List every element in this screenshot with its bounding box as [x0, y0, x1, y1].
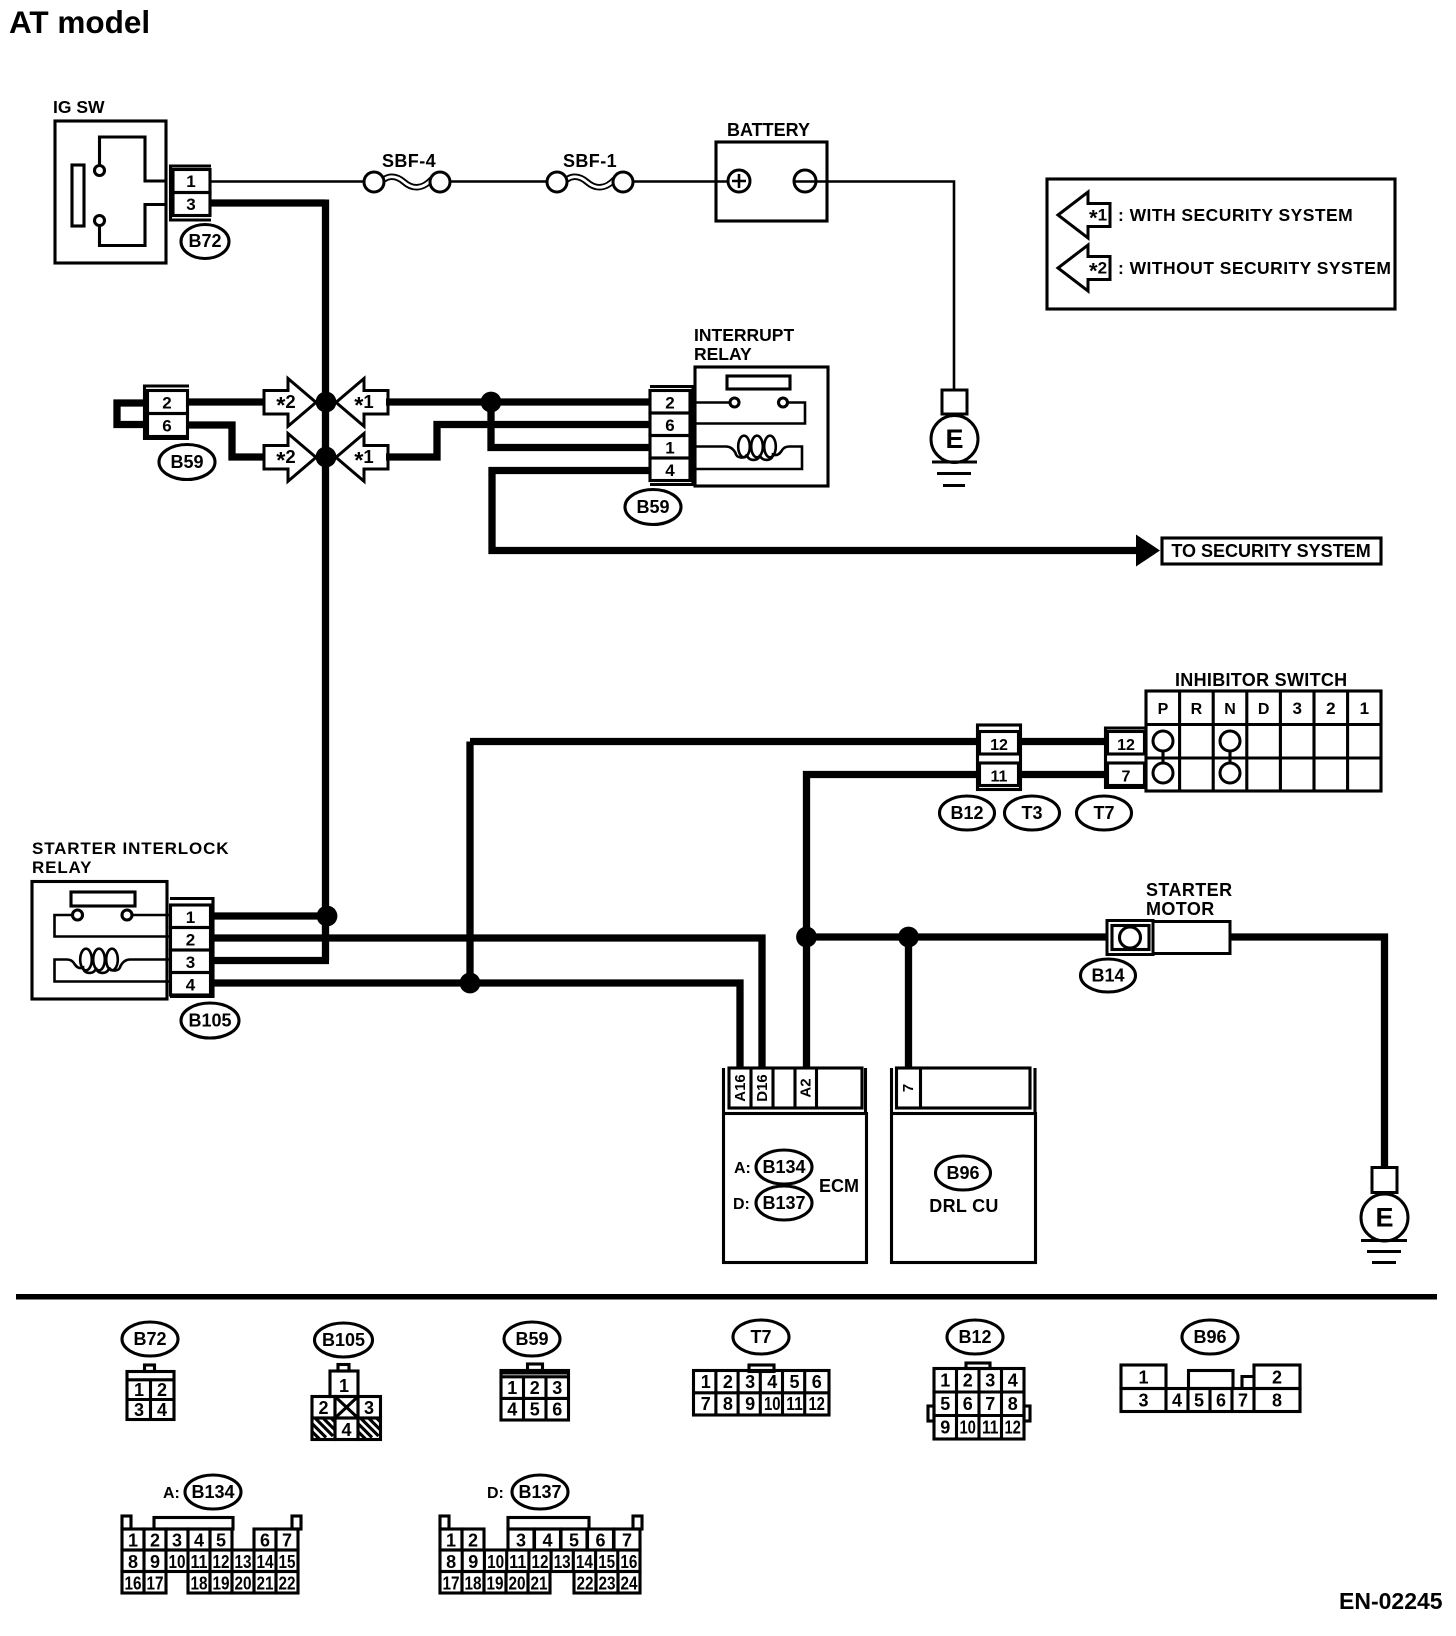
wire starter motor net: [807, 933, 1109, 940]
svg-text:9: 9: [468, 1552, 478, 1572]
svg-text:1: 1: [186, 908, 195, 927]
svg-text:16: 16: [620, 1552, 637, 1572]
legend ellipse B12: [947, 1320, 1003, 1354]
svg-text:B96: B96: [1193, 1327, 1226, 1347]
svg-text:DRL CU: DRL CU: [929, 1196, 998, 1216]
svg-text:7: 7: [282, 1531, 292, 1551]
junction dot pin4 riser: [460, 973, 481, 994]
legend arrow *1: [1058, 192, 1110, 238]
IG SW key bar: [72, 165, 84, 226]
svg-text:23: 23: [599, 1574, 616, 1594]
svg-text:B137: B137: [518, 1482, 561, 1502]
svg-text:B59: B59: [636, 497, 669, 517]
svg-text:4: 4: [1008, 1371, 1018, 1391]
wire B12 pin12 to T7 pin12: [1021, 738, 1108, 745]
svg-text:7: 7: [1238, 1391, 1248, 1411]
svg-text:1: 1: [186, 172, 195, 191]
starter interlock relay coil: [80, 949, 92, 971]
legend ellipse T7: [733, 1320, 789, 1354]
svg-text:4: 4: [157, 1400, 167, 1420]
svg-text:TO SECURITY SYSTEM: TO SECURITY SYSTEM: [1171, 541, 1370, 561]
wire IG pin1 to SBF-4: [209, 180, 364, 183]
arrow *2 row 1: [264, 379, 316, 427]
connector B59 left ellipse: [159, 445, 215, 480]
junction dot pin1 branch: [481, 392, 502, 413]
svg-text:N: N: [1224, 701, 1236, 718]
ground E (top): [931, 390, 978, 486]
svg-text:4: 4: [542, 1531, 552, 1551]
svg-text:4: 4: [767, 1372, 777, 1392]
svg-text:8: 8: [723, 1394, 733, 1414]
svg-text:1: 1: [701, 1372, 711, 1392]
svg-text:3: 3: [364, 1398, 374, 1418]
connector B59 left pin 6: [148, 414, 188, 437]
ellipse T7: [1077, 796, 1132, 830]
interrupt relay coil: [738, 436, 750, 458]
IG SW lower contact wire: [100, 205, 167, 246]
svg-text:4: 4: [341, 1420, 351, 1440]
wire B12 pin11 to T7 pin7: [1021, 771, 1108, 778]
svg-text:E: E: [945, 424, 963, 454]
inhibitor switch grid: [1146, 691, 1381, 791]
legend connector B105 pinout: [312, 1365, 381, 1441]
svg-text:1: 1: [134, 1380, 144, 1400]
ECM connector strip bracket right: [864, 1068, 867, 1112]
legend ellipse B105: [315, 1323, 373, 1357]
svg-text:RELAY: RELAY: [32, 858, 92, 877]
svg-text:5: 5: [789, 1372, 799, 1392]
svg-text:3: 3: [134, 1400, 144, 1420]
legend connector B134 pinout: [122, 1516, 301, 1594]
svg-text:: WITH SECURITY SYSTEM: : WITH SECURITY SYSTEM: [1118, 205, 1353, 225]
svg-text:7: 7: [1122, 769, 1131, 786]
svg-text:2: 2: [150, 1531, 160, 1551]
svg-text:6: 6: [595, 1531, 605, 1551]
DRL CU connector strip: [897, 1068, 1031, 1108]
svg-text:3: 3: [552, 1378, 562, 1398]
connector B105 ellipse: [181, 1003, 239, 1038]
svg-text:5: 5: [216, 1531, 226, 1551]
svg-text:4: 4: [194, 1531, 204, 1551]
svg-text:8: 8: [446, 1552, 456, 1572]
wire relay pin2 to ECM D16: [212, 938, 762, 1067]
wire B12 pin11 to ECM A2: [807, 775, 978, 1068]
svg-text:10: 10: [959, 1418, 976, 1438]
svg-text:ECM: ECM: [819, 1176, 859, 1196]
legend ellipse B96: [1182, 1320, 1238, 1354]
svg-text:3: 3: [745, 1372, 755, 1392]
legend ellipse B137: [512, 1475, 568, 1509]
svg-text:6: 6: [552, 1400, 562, 1420]
svg-text:19: 19: [213, 1574, 230, 1594]
svg-text:B105: B105: [322, 1330, 365, 1350]
svg-text:5: 5: [1194, 1391, 1204, 1411]
junction dot DRL riser: [898, 927, 919, 948]
ECM connector strip: [729, 1068, 862, 1108]
svg-text:6: 6: [812, 1372, 822, 1392]
svg-text:IG SW: IG SW: [53, 97, 105, 117]
connector B12 pin 12: [980, 732, 1019, 755]
svg-text:B105: B105: [188, 1011, 231, 1031]
svg-text:A:: A:: [734, 1160, 751, 1177]
svg-text:6: 6: [260, 1531, 270, 1551]
interrupt relay pin6 internal wire: [696, 403, 805, 424]
legend connector B12 pinout: [928, 1363, 1030, 1439]
svg-text:1: 1: [446, 1531, 456, 1551]
starter interlock relay box: [32, 882, 167, 1000]
ignition switch IG SW box: [55, 121, 166, 263]
security system arrowhead: [1136, 535, 1160, 567]
legend box: [1047, 179, 1395, 309]
svg-text:D: D: [1258, 701, 1270, 718]
svg-text:2: 2: [665, 394, 674, 413]
svg-text:7: 7: [701, 1394, 711, 1414]
wire arrow *1 row2 to relay pin6: [386, 425, 651, 458]
svg-text:4: 4: [507, 1400, 517, 1420]
svg-text:4: 4: [665, 461, 675, 480]
svg-text:B137: B137: [762, 1193, 805, 1213]
connector B72 shell: [171, 166, 212, 220]
svg-text:SBF-4: SBF-4: [382, 151, 436, 171]
connector B12 pin 11: [980, 763, 1019, 786]
svg-text:T3: T3: [1021, 803, 1042, 823]
svg-text:INHIBITOR SWITCH: INHIBITOR SWITCH: [1175, 670, 1347, 690]
svg-text:B72: B72: [188, 231, 221, 251]
interrupt relay connector pin 2: [650, 391, 690, 414]
IG SW lower contact: [95, 216, 105, 226]
ellipse B134: [756, 1150, 812, 1184]
svg-text:3: 3: [186, 195, 195, 214]
svg-text:D:: D:: [733, 1196, 750, 1213]
ECM box: [724, 1114, 867, 1263]
connector B72 pin 3 box: [173, 193, 210, 216]
interrupt relay connector pin 6: [650, 413, 690, 436]
IG SW upper contact wire: [100, 137, 167, 181]
svg-text:1: 1: [1138, 1368, 1148, 1388]
svg-text:STARTER: STARTER: [1146, 880, 1232, 900]
svg-text:3: 3: [186, 953, 195, 972]
svg-text:E: E: [1375, 1203, 1393, 1233]
svg-text:13: 13: [554, 1552, 571, 1572]
svg-text:3: 3: [985, 1371, 995, 1391]
svg-text:B72: B72: [133, 1329, 166, 1349]
svg-text:15: 15: [279, 1552, 296, 1572]
svg-text:8: 8: [1272, 1391, 1282, 1411]
inhibitor N contacts: [1228, 748, 1231, 766]
ellipse B14: [1081, 959, 1136, 992]
svg-text:9: 9: [745, 1394, 755, 1414]
svg-text:22: 22: [577, 1574, 594, 1594]
svg-text:RELAY: RELAY: [694, 344, 752, 364]
svg-text:8: 8: [1008, 1394, 1018, 1414]
ellipse B137: [756, 1186, 812, 1220]
connector T7 pin 7: [1108, 763, 1145, 786]
svg-text:EN-02245: EN-02245: [1339, 1588, 1443, 1614]
svg-text:B59: B59: [515, 1329, 548, 1349]
svg-text:10: 10: [169, 1552, 186, 1572]
svg-text:B14: B14: [1091, 966, 1124, 986]
svg-text:20: 20: [509, 1574, 526, 1594]
svg-text:1: 1: [1360, 699, 1369, 718]
starter motor body: [1153, 922, 1230, 954]
svg-text:2: 2: [157, 1380, 167, 1400]
connector B72 pin 1 box: [173, 170, 210, 193]
svg-text:9: 9: [150, 1552, 160, 1572]
starter interlock relay pin1 internal wire: [133, 914, 171, 917]
svg-text:P: P: [1158, 701, 1169, 718]
svg-text:3: 3: [1138, 1391, 1148, 1411]
interrupt relay armature bar: [727, 376, 790, 389]
svg-text:12: 12: [213, 1552, 230, 1572]
connector B59 left pin 2: [148, 391, 188, 414]
svg-text:R: R: [1191, 701, 1203, 718]
ellipse T3: [1005, 796, 1060, 830]
svg-text:A:: A:: [163, 1485, 180, 1502]
svg-text:D16: D16: [754, 1074, 771, 1102]
svg-text:2: 2: [468, 1531, 478, 1551]
fuse SBF-4: [364, 151, 450, 192]
wire IG pin3 trunk down: [209, 200, 326, 961]
svg-text:T7: T7: [750, 1327, 771, 1347]
svg-text:4: 4: [186, 976, 196, 995]
interrupt relay box: [695, 367, 828, 486]
svg-text:1: 1: [940, 1371, 950, 1391]
wire SBF-4 to SBF-1: [450, 180, 546, 183]
svg-text:18: 18: [465, 1574, 482, 1594]
divider line: [16, 1294, 1437, 1300]
interrupt relay contact circles: [730, 398, 739, 407]
svg-text:2: 2: [1326, 699, 1335, 718]
svg-text:17: 17: [147, 1574, 164, 1594]
svg-text:6: 6: [963, 1394, 973, 1414]
svg-text:3: 3: [516, 1531, 526, 1551]
svg-text:17: 17: [443, 1574, 460, 1594]
wire arrow *1 row1 to relay pin2: [386, 398, 651, 405]
svg-text:5: 5: [569, 1531, 579, 1551]
legend ellipse B134: [185, 1475, 241, 1509]
starter interlock connector pin 1: [171, 905, 211, 928]
svg-text:1: 1: [507, 1378, 517, 1398]
junction dot A2 riser: [796, 927, 817, 948]
wire starter motor to ground E bottom: [1229, 937, 1385, 1168]
svg-text:7: 7: [900, 1084, 917, 1092]
connector B59 left shell: [145, 386, 190, 439]
svg-text:6: 6: [1216, 1391, 1226, 1411]
inhibitor P contacts: [1161, 748, 1164, 766]
connector B72 ellipse: [181, 225, 229, 259]
fuse SBF-1: [547, 151, 633, 192]
svg-text:16: 16: [125, 1574, 142, 1594]
starter interlock relay armature bar: [71, 892, 135, 906]
svg-text:5: 5: [530, 1400, 540, 1420]
junction dot row1: [316, 392, 337, 413]
junction dot row2: [316, 447, 337, 468]
to security system box: [1162, 538, 1381, 564]
interrupt relay connector shell: [650, 387, 693, 485]
svg-text:18: 18: [191, 1574, 208, 1594]
svg-text:D:: D:: [487, 1485, 504, 1502]
svg-text:5: 5: [940, 1394, 950, 1414]
svg-text:7: 7: [985, 1394, 995, 1414]
svg-text:2: 2: [530, 1378, 540, 1398]
wire riser to DRL CU pin7: [905, 937, 912, 1067]
svg-text:2: 2: [162, 394, 171, 413]
svg-text:24: 24: [621, 1574, 638, 1594]
starter interlock connector pin 4: [171, 973, 211, 996]
svg-text:11: 11: [786, 1394, 803, 1414]
starter interlock relay pin2 internal wire: [55, 915, 171, 937]
svg-text:2: 2: [1272, 1368, 1282, 1388]
arrow *1 row 1: [336, 379, 388, 427]
svg-text:13: 13: [235, 1552, 252, 1572]
IG SW upper contact: [95, 166, 105, 176]
battery BATTERY: [716, 120, 827, 221]
svg-text:B96: B96: [946, 1163, 979, 1183]
svg-text:T7: T7: [1093, 803, 1114, 823]
legend ellipse B72: [122, 1322, 178, 1356]
svg-text:19: 19: [487, 1574, 504, 1594]
wire relay pin3 to trunk: [212, 957, 329, 964]
svg-text:4: 4: [1172, 1391, 1182, 1411]
svg-text:21: 21: [531, 1574, 548, 1594]
svg-text:A16: A16: [732, 1074, 749, 1102]
starter interlock connector pin 3: [171, 950, 211, 973]
svg-text:2: 2: [318, 1398, 328, 1418]
svg-text:3: 3: [1292, 699, 1301, 718]
wire riser pin4 to B12 pin12: [466, 742, 473, 986]
legend connector B137 pinout: [440, 1516, 642, 1594]
legend connector B59 pinout: [501, 1364, 569, 1420]
ellipse B96: [936, 1156, 991, 1190]
ECM connector strip bracket left: [722, 1068, 725, 1112]
DRL CU connector strip bracket right: [1033, 1068, 1036, 1112]
svg-text:12: 12: [990, 737, 1008, 754]
interrupt relay connector pin 1: [650, 436, 690, 459]
svg-text:B134: B134: [762, 1157, 805, 1177]
legend connector T7 pinout: [694, 1365, 830, 1415]
svg-text:MOTOR: MOTOR: [1146, 899, 1215, 919]
svg-text:12: 12: [1117, 737, 1135, 754]
svg-text:: WITHOUT SECURITY SYSTEM: : WITHOUT SECURITY SYSTEM: [1118, 258, 1391, 278]
connector T7 pin 12: [1108, 732, 1145, 755]
svg-text:2: 2: [963, 1371, 973, 1391]
svg-text:11: 11: [982, 1418, 999, 1438]
arrow *2 row 2: [264, 434, 316, 482]
svg-text:8: 8: [128, 1552, 138, 1572]
svg-text:11: 11: [509, 1552, 526, 1572]
wire relay pin4 to ECM A16: [212, 983, 740, 1067]
svg-text:21: 21: [257, 1574, 274, 1594]
legend arrow *2: [1058, 245, 1110, 291]
svg-text:6: 6: [162, 417, 171, 436]
svg-text:3: 3: [172, 1531, 182, 1551]
svg-text:STARTER INTERLOCK: STARTER INTERLOCK: [32, 839, 229, 858]
legend connector B72 pinout: [127, 1365, 174, 1420]
legend connector B96 pinout: [1121, 1365, 1300, 1412]
wire branch to relay pin1: [491, 400, 651, 448]
legend ellipse B59: [504, 1322, 560, 1356]
wire pin2 to arrow *2 row1: [187, 398, 266, 405]
wire pin6 to arrow *2 row2: [186, 425, 266, 457]
svg-text:10: 10: [764, 1394, 781, 1414]
interrupt relay connector pin 4: [650, 458, 690, 481]
starter interlock connector shell: [170, 899, 213, 997]
wire SBF-1 to battery: [633, 180, 729, 183]
svg-text:B59: B59: [170, 452, 203, 472]
svg-text:11: 11: [991, 769, 1008, 786]
svg-text:1: 1: [128, 1531, 138, 1551]
svg-text:11: 11: [191, 1552, 208, 1572]
svg-text:14: 14: [576, 1552, 593, 1572]
svg-text:SBF-1: SBF-1: [563, 151, 617, 171]
DRL CU connector strip bracket left: [890, 1068, 893, 1112]
starter interlock relay contacts: [73, 910, 83, 920]
junction dot trunk pin1: [317, 906, 338, 927]
svg-text:15: 15: [598, 1552, 615, 1572]
wire B12 pin12 left: [470, 738, 978, 745]
DRL CU box: [892, 1114, 1036, 1263]
svg-text:7: 7: [622, 1531, 632, 1551]
starter interlock connector pin 2: [171, 928, 211, 951]
svg-text:10: 10: [487, 1552, 504, 1572]
svg-text:BATTERY: BATTERY: [727, 120, 810, 140]
svg-text:6: 6: [665, 416, 674, 435]
svg-text:12: 12: [532, 1552, 549, 1572]
wire relay pin1 to trunk: [212, 912, 329, 919]
svg-text:A2: A2: [798, 1078, 815, 1097]
svg-text:B12: B12: [958, 1327, 991, 1347]
svg-text:20: 20: [235, 1574, 252, 1594]
ellipse B12: [940, 796, 995, 830]
svg-text:14: 14: [257, 1552, 274, 1572]
arrow *1 row 2: [336, 434, 388, 482]
wire relay pin4 to security system: [492, 471, 1136, 551]
svg-text:B134: B134: [191, 1482, 234, 1502]
svg-text:12: 12: [808, 1394, 825, 1414]
connector B12 shell: [978, 725, 1021, 790]
svg-text:1: 1: [665, 439, 674, 458]
interrupt relay pin2 internal wire: [696, 401, 730, 404]
svg-text:9: 9: [940, 1418, 950, 1438]
svg-text:2: 2: [723, 1372, 733, 1392]
connector T7 shell: [1106, 728, 1147, 788]
svg-text:1: 1: [339, 1376, 349, 1396]
wire battery to ground E: [793, 182, 954, 392]
svg-text:12: 12: [1004, 1418, 1021, 1438]
svg-text:22: 22: [279, 1574, 296, 1594]
starter motor connector B14: [1107, 921, 1153, 955]
jumper loop wire pins 2-6: [117, 403, 148, 425]
svg-text:AT model: AT model: [9, 4, 150, 40]
svg-text:B12: B12: [950, 803, 983, 823]
ground E (bottom): [1361, 1168, 1408, 1263]
interrupt relay connector ellipse B59: [625, 490, 681, 525]
svg-text:INTERRUPT: INTERRUPT: [694, 325, 794, 345]
svg-text:2: 2: [186, 931, 195, 950]
